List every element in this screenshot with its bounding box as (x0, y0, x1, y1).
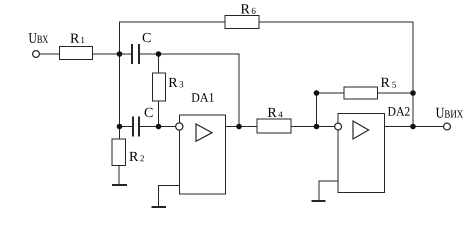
resistor R3 (153, 73, 166, 101)
junction R5 right rail (410, 90, 416, 96)
wire node A down to node D (119, 54, 121, 127)
wire node C to DA1 inverting input (159, 126, 176, 128)
wire node B down to R3 (158, 54, 160, 73)
capacitor C upper right plate (138, 44, 140, 64)
capacitor C upper left plate (131, 44, 133, 64)
op-amp DA2 body (338, 114, 385, 193)
wire feedback rail to R6 (119, 21, 225, 23)
resistor R2 (112, 139, 126, 166)
wire DA2 ground pin (319, 181, 338, 201)
junction DA1 output (236, 124, 242, 130)
resistor R5 (344, 87, 378, 99)
wire DA1 ground pin (159, 185, 180, 207)
wire DA2 output to terminal (385, 126, 444, 128)
junction node A (117, 51, 123, 57)
op-amp DA1 triangle (196, 124, 212, 141)
junction node B (156, 51, 162, 57)
op-amp DA1 body (179, 115, 225, 194)
wire R5 node to R5 (317, 92, 345, 94)
wire input to R1 (40, 53, 60, 55)
svg-text:UВХ: UВХ (29, 31, 49, 47)
junction node E (314, 124, 320, 130)
wire node D to C lower (120, 126, 134, 128)
wire C upper to node B (139, 53, 159, 55)
wire right rail down to output node (412, 22, 414, 127)
junction node D (117, 124, 123, 130)
wire R4 to node E (291, 126, 335, 128)
wire node B to feedback corner (159, 53, 240, 55)
resistor R4 (257, 119, 291, 133)
svg-text:UВИХ: UВИХ (436, 106, 464, 122)
ground DA1 (152, 206, 166, 208)
wire DA1 output to R4 (225, 126, 257, 128)
junction R5 left node (314, 90, 320, 96)
wire feedback corner down to DA1 output (238, 54, 240, 127)
capacitor C lower right plate (138, 117, 140, 137)
wire node D down to R2 (119, 127, 121, 140)
wire R2 to ground (118, 166, 120, 186)
op-amp DA1 inverting input circle (176, 123, 183, 130)
resistor R6 (225, 16, 259, 29)
input terminal Uвх (33, 51, 40, 58)
wire R6 to right corner (259, 21, 414, 23)
svg-text:C: C (142, 31, 151, 46)
wire R1 to node A (93, 53, 133, 55)
svg-text:C: C (144, 106, 153, 121)
junction output node (410, 124, 416, 130)
capacitor C lower left plate (132, 117, 134, 137)
ground DA2 (312, 200, 326, 202)
wire node E up to R5 node (316, 93, 318, 127)
wire R3 to node C (158, 101, 160, 127)
op-amp DA2 inverting input circle (335, 123, 342, 130)
ground R2 (112, 184, 127, 186)
wire node A up to feedback rail (119, 22, 121, 54)
resistor R1 (60, 47, 93, 60)
svg-text:DA2: DA2 (387, 104, 410, 119)
wire C lower to node C (139, 126, 159, 128)
output terminal Uвих (444, 123, 451, 130)
wire R5 to right rail (378, 92, 414, 94)
svg-text:DA1: DA1 (191, 90, 214, 105)
op-amp DA2 triangle (353, 121, 369, 139)
junction node C (156, 124, 162, 130)
